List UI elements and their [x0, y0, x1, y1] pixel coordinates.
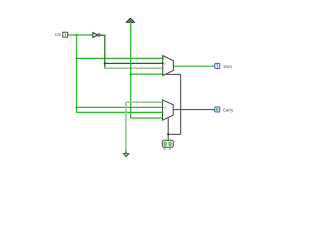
- node pin BA port dot: [167, 139, 169, 141]
- digit 0: [164, 142, 166, 145]
- node junction Cin wire / vertical: [75, 34, 77, 36]
- node junction at (130.6,74.1): [130, 73, 132, 75]
- svg-text:Sum: Sum: [223, 64, 232, 69]
- wire power vertical x=130.6: [130, 22, 132, 118]
- ground G1 symbol: [123, 154, 128, 157]
- wire sum mux input4 y=74.1: [131, 73, 163, 75]
- node port dots mux U1 inputs: [162, 58, 164, 60]
- wire select bus vertical x=180.6: [180, 74, 182, 134]
- wire select bus mux1 horizontal y=74.4: [166, 73, 181, 75]
- wire carry mux output y=109.6 dark: [173, 109, 214, 111]
- power P1 symbol: [126, 18, 134, 22]
- wire Cin horizontal from pin to NOT gate: [68, 34, 93, 36]
- wire sum mux input1 y=58.4: [76, 57, 162, 59]
- wire carry mux input3 y=112.4: [76, 111, 162, 113]
- digit 1: [64, 34, 67, 37]
- wire sum mux output y=66.2: [173, 65, 214, 67]
- pin Carry output: [215, 107, 220, 112]
- digit 0: [169, 142, 171, 145]
- op-amp mux U1 sum multiplexer: [163, 56, 174, 76]
- op-amp mux U2 carry multiplexer: [163, 100, 174, 120]
- wire Cin vertical drop x=76.4: [76, 35, 78, 112]
- digit 0: [217, 108, 219, 111]
- wire select bus vertical x=168.2 carry select to pin: [167, 118, 169, 141]
- svg-text:Carry: Carry: [223, 107, 234, 112]
- node junction select bus (168.2,134.3): [167, 133, 169, 135]
- wire sum mux input2 dark y=63.3: [104, 62, 162, 64]
- wire carry mux input1 pale y=102.2: [126, 101, 163, 103]
- wire carry mux input2 y=107.4: [76, 106, 162, 108]
- wire sum mux input3 pale y=68.2: [104, 67, 162, 69]
- svg-text:Cin: Cin: [55, 32, 62, 37]
- svg-text:0: 0: [164, 62, 166, 66]
- node NOT input dot: [92, 34, 94, 36]
- wire NOT output dark green to corner: [100, 34, 105, 36]
- pin BA 2-bit input: [162, 140, 173, 147]
- svg-text:0: 0: [164, 106, 166, 110]
- wire NOT output vertical x=105: [104, 35, 106, 68]
- node ground lead dot: [125, 151, 127, 153]
- digit 1: [216, 64, 219, 67]
- gate NOT G2 inverter: [93, 33, 100, 38]
- node junction at (76.4,58.4): [75, 57, 77, 59]
- wire carry mux input4 y=118.0: [131, 117, 163, 119]
- wire ground vertical x=125.9 pale: [125, 102, 127, 152]
- node port dots mux U2 inputs: [162, 101, 164, 103]
- pin Sum output: [215, 63, 220, 68]
- svg-text:B: B: [164, 147, 166, 151]
- wire select bus horizontal y=134.3: [168, 133, 181, 135]
- node junction at (76.4,107.4): [75, 106, 77, 108]
- pin Cin input: [63, 32, 68, 37]
- node junction at (105,63.3): [104, 62, 106, 64]
